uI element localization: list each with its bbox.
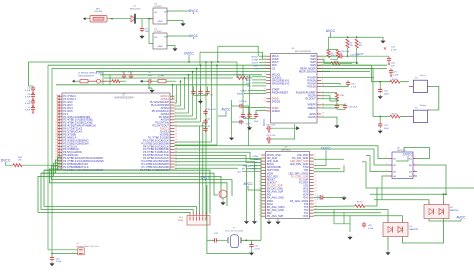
capacitor C24 [319,195,325,199]
ferrite bead L1 [80,80,88,83]
svg-text:21: 21 [55,154,57,156]
pin PU.0/AVSS1/DP [150,100,176,104]
wire to SL3 d [199,126,201,214]
wire U8 d [382,176,388,200]
svg-text:1uF: 1uF [145,31,149,33]
svg-text:GPIO2/RELAY2: GPIO2/RELAY2 [272,82,290,85]
net AVCC right [326,29,336,34]
pin RLDIN [308,94,324,97]
pin P6.1/TDI/TCLK2 [55,127,83,131]
pin BOCA [260,163,275,166]
pin RLDOUT [306,97,324,100]
pin LED_DRV_SUP [290,160,315,163]
wire avdd caps2 [249,75,251,114]
svg-text:2: 2 [414,157,415,159]
pin AVSS2 [161,106,176,110]
svg-text:MSP430F5529IPN: MSP430F5529IPN [114,97,133,99]
svg-text:1: 1 [56,95,57,97]
svg-text:12: 12 [55,127,57,129]
svg-text:2.2uF: 2.2uF [56,261,62,263]
pin TX4 [304,203,317,206]
wire [207,87,209,90]
pin DVDD [264,97,279,100]
svg-text:20: 20 [259,212,261,214]
svg-text:4.7uF: 4.7uF [25,109,31,111]
pin AVCC1 [160,94,176,98]
pin P5.1/TA/MCLK [152,109,176,113]
wire long bottom right [366,162,474,188]
wire PGA2P [321,77,374,79]
junction trunk [211,61,213,63]
ground [385,251,390,255]
no-connect [57,154,59,156]
wire bus5 [50,169,228,206]
wire to U6 a [175,152,262,159]
capacitor C4 [31,99,35,105]
capacitor C7 [191,90,195,96]
net trunk 6 [104,77,233,79]
wire c37 [272,128,295,139]
ground [149,89,154,93]
pin RX1 [303,196,316,199]
wire above U5 a [218,46,258,56]
pin PGA1P [307,82,323,85]
wire [136,18,149,20]
wire [336,120,338,124]
svg-text:4: 4 [56,104,57,106]
wire xtal a [207,239,213,241]
svg-text:16: 16 [175,139,177,141]
pin RESP_MODP [300,67,323,70]
svg-text:0.1uF: 0.1uF [317,198,323,200]
svg-text:6PIN: 6PIN [178,220,183,222]
no-connect [384,47,386,49]
wire [88,80,97,82]
pin P5.4/I2SCLK [55,153,78,157]
wire BSL [373,115,390,117]
pin RESET [260,178,276,181]
wire jc3 [349,216,351,232]
pin IN1P [310,61,323,64]
wire cap column [231,100,233,136]
pin P1.7/TB0.3/UCB0 [148,135,177,139]
junction trunk [217,61,219,63]
svg-text:18: 18 [259,206,261,208]
wire u6l h [242,171,261,173]
svg-text:BAV99W: BAV99W [410,228,418,231]
pin P3.1/SB2/UCB0SOMI [55,141,89,145]
wire feeder1 [372,65,374,81]
pin ATE_PDN [297,154,316,157]
junction trunk [188,61,190,63]
svg-text:C30 0.1uF: C30 0.1uF [207,109,217,111]
pin P5.1/TB0.3/UCA0CLK [143,138,177,142]
wire cap col2 [244,106,249,146]
wire IN2P [321,55,327,57]
capacitor C37 [266,137,272,141]
wire d2 gnd [387,237,389,251]
capacitor C25 [362,222,366,228]
net DVCC xtal [201,175,211,180]
svg-text:8: 8 [322,79,323,81]
wire P4 h [175,167,239,169]
wire [259,58,266,60]
svg-text:ADS1292RIPBS: ADS1292RIPBS [295,50,311,53]
pin U8.R1 [413,158,417,160]
pin PJ.1/TB0MB/BKTCLK [55,165,89,169]
capacitor C27 [247,113,251,119]
svg-text:6: 6 [260,169,261,171]
svg-text:BICLK: BICLK [252,56,259,58]
pin VSS [303,184,316,187]
pin P1.7/TB0.4/UCB1SOMI2 [140,168,177,172]
svg-text:C18 10uF: C18 10uF [348,107,358,109]
pin MCLK2 [265,73,281,76]
wire r3 down [356,48,358,63]
IC U8 SN74LVC1G3157 [392,152,413,179]
pin DVDD2 [264,100,281,103]
pin IN2P [310,55,323,58]
wire [32,85,34,87]
junction [347,36,349,38]
pin P6.2/TMS/CLK4 [55,130,82,134]
svg-text:C36 0.1uF: C36 0.1uF [266,124,276,126]
svg-text:4.7uF: 4.7uF [245,124,251,126]
svg-text:AVDD2: AVDD2 [272,110,281,113]
wire [251,248,253,251]
wire to SL3 b [41,210,193,214]
wire in2p b [327,55,340,57]
ADC U5 ADS1292R [271,54,318,124]
regulator U3 LP5907 [153,8,167,24]
no-connect [57,142,59,144]
pin PWDN/RESET [264,91,289,94]
svg-text:11: 11 [315,184,317,186]
capacitor C2 [31,86,35,92]
pin AVSS [309,113,324,116]
capacitor C35 [129,73,133,79]
wire [167,35,189,37]
capacitor C34 [122,73,126,79]
arrow VIN [72,80,75,83]
wire escape v1 [172,85,174,99]
net AVCC mid [221,108,231,113]
pin U8.R3 [413,171,417,173]
junction trunk [180,80,182,82]
wire escape v6 [192,72,194,116]
wire u6l g [246,168,261,170]
wire to SL3 c [38,213,190,214]
wire u6 b2 [314,210,388,220]
svg-text:7: 7 [56,113,57,115]
pin SCK [265,64,278,67]
svg-text:4: 4 [175,104,176,106]
svg-text:6: 6 [56,110,57,112]
no-connect [57,125,59,127]
wire avcc rail [329,37,384,39]
pin RX_ANA_SUP [259,190,284,193]
junction [148,18,150,20]
ground [380,39,385,43]
wire [232,105,239,107]
net AVCC bottomright [456,216,466,221]
wire u6r2 [314,158,344,160]
resistor R7 [390,115,400,118]
wire dvcc afe [314,152,326,166]
wire drop 200 [199,52,201,65]
wire xtal b [242,239,262,241]
wire pin link 11 [175,144,218,146]
svg-text:6: 6 [265,73,266,75]
resistor R2 [346,39,349,48]
svg-text:7: 7 [386,175,387,177]
capacitor C22 [378,88,382,94]
pin P4.7/TB0.1/UCA1RXD/UCA1SOMI [55,159,104,163]
svg-text:GND: GND [158,46,163,48]
svg-text:12: 12 [175,127,177,129]
svg-text:OUT: OUT [164,11,169,13]
svg-text:OUT: OUT [164,36,169,38]
svg-text:Reset: Reset [420,74,426,77]
svg-text:4.7uF: 4.7uF [351,86,357,88]
svg-text:13: 13 [315,190,317,192]
capacitor C23 [378,122,382,128]
wire bus1 [44,157,62,170]
ground [378,129,383,133]
net DVCC afe [321,147,331,152]
crystal Y2 [228,235,241,248]
vertical from MCU bottom 2 [40,173,42,210]
svg-text:START: START [241,89,248,92]
off-page arrow right [296,126,299,130]
capacitor C15 [346,81,350,87]
pin SUPY/STE [260,169,280,172]
svg-text:ADC_RDY: ADC_RDY [248,164,258,167]
svg-text:9: 9 [260,178,261,180]
pin P5.4/MCLK [55,135,77,139]
wire [337,108,345,110]
ground [252,220,257,224]
wire VREFP [321,99,337,104]
wire RLDIN [321,96,337,101]
svg-text:1: 1 [315,154,316,156]
wire PGA1P [321,84,340,85]
junction [379,116,381,118]
svg-text:24: 24 [175,163,177,165]
svg-text:LP5907: LP5907 [154,31,162,33]
pin P4.7/TB0.7/UCB1CLK [143,150,177,154]
no-connect [57,122,59,124]
wire [314,197,319,199]
no-connect [57,133,59,135]
wire gpio3 [252,82,266,84]
transistor Q1 [219,190,227,198]
ground [247,126,252,130]
resistor R6 [390,80,400,83]
wire to U8 c [370,155,388,171]
pin P1.5/TB0.4/UCA0TXD/UCA0SIMO [55,168,103,172]
svg-text:10: 10 [175,121,177,123]
svg-text:4: 4 [315,163,316,165]
svg-text:C13 0.1uF: C13 0.1uF [340,51,350,53]
pin PJ.1 [56,112,69,116]
no-connect [57,148,59,150]
wire escape v4 [184,78,186,109]
wire pin link 8 [175,121,201,123]
svg-text:DVCC: DVCC [184,52,194,56]
pin U8.L3 [388,171,392,173]
wire pin link 9 [175,125,207,127]
capacitor C26 [241,113,245,119]
ground [49,262,54,266]
svg-text:3: 3 [260,160,261,162]
wire escape v2 [176,85,178,103]
wire r5 out [330,58,338,60]
pin START [264,88,281,91]
ground [341,196,346,200]
resistor R9b [355,205,365,208]
wire [101,80,113,82]
wire bias h [329,49,338,51]
no-connect [57,95,59,97]
no-connect [57,107,59,109]
pin AVDD [264,106,279,109]
svg-text:L2 FB: L2 FB [158,76,164,78]
wire RLDREF [321,92,337,94]
wire drop 217 [217,46,219,62]
wire escape v9 [205,62,207,126]
svg-text:19: 19 [55,148,57,150]
pin TX_SUP [299,178,316,181]
wire jc1 [334,210,350,224]
svg-text:16: 16 [259,200,261,202]
wire [379,82,381,88]
svg-text:13: 13 [264,100,266,102]
wire to SL3 e [202,122,204,214]
pin MOSI [260,172,274,175]
net trunk 7 [56,84,250,86]
ground [347,236,352,240]
pin PD1 [259,193,273,196]
svg-text:15: 15 [175,136,177,138]
vertical from MCU bottom 1 [43,170,45,207]
pin P1.7/TA0.2 [56,94,77,98]
pin DVSS1 [160,130,177,134]
svg-text:4.7uF: 4.7uF [25,96,31,98]
no-connect [57,130,59,132]
wire [166,80,176,82]
wire RESP_MODN [321,70,370,72]
wire [295,127,297,129]
no-connect C2 [32,92,34,94]
ground [180,22,185,26]
wire c24 gnd [325,196,344,198]
pin CLKSEL [265,76,282,79]
no-connect [57,113,59,115]
supply arrow VBUS [83,17,86,20]
ground [266,220,271,224]
svg-text:12: 12 [315,187,317,189]
svg-text:AVCC: AVCC [456,216,466,220]
svg-text:ECS-.327-12.5-34B: ECS-.327-12.5-34B [225,230,243,232]
junction trunk [184,77,186,79]
capacitor C32 [203,127,207,133]
no-connect C3 [32,98,34,100]
pin P6.3/TD0B [55,132,76,136]
wire bus4 [52,166,233,196]
svg-text:8: 8 [315,175,316,177]
capacitor C10 [50,256,54,262]
wire DGND [321,117,337,120]
pin P1.4/TA1.2/UCB0STE5 [56,115,91,119]
junction trunk [192,71,194,73]
pin SL3.4 [199,213,201,216]
capacitor C17 [343,104,347,110]
pushbutton S5 [413,110,427,122]
pin PJ.0/TB0MA/BKTGIO [55,162,88,166]
wire [188,57,190,62]
junction trunk [188,74,190,76]
pin SCLK [259,203,274,206]
wire u6 b3 [314,212,381,214]
svg-text:DVCC: DVCC [321,147,331,151]
wire pin link 2 [175,102,177,104]
capacitor C5 [140,27,144,33]
wire [218,113,226,116]
pin LED_DRV_GND2 [288,172,315,175]
svg-text:CONF: CONF [252,59,259,61]
svg-text:SCK: SCK [254,66,259,68]
svg-text:5: 5 [56,107,57,109]
svg-text:1uF: 1uF [148,75,152,77]
wire [29,85,34,87]
pin P1.0/C3 [56,103,73,107]
wire bottom right 3 [374,200,429,202]
junction [356,36,358,38]
pin P1.4/TB0.2/UCB0CLK/B2 [55,121,93,125]
pin RX_DIG_GND [292,157,315,160]
svg-text:1: 1 [175,95,176,97]
svg-text:25: 25 [175,166,177,168]
svg-text:RESP_SKONN: RESP_SKONN [299,70,316,73]
capacitor C14x [249,243,253,249]
pin U8.L4 [388,175,392,177]
svg-text:18: 18 [55,145,57,147]
pin RX_ANA_SUP2 [259,206,286,209]
capacitor C6 [147,79,153,83]
wire S4 loop [431,86,439,110]
pin U8.L1 [388,158,392,160]
svg-text:5: 5 [315,166,316,168]
wire [328,56,330,57]
svg-text:11: 11 [264,91,266,93]
pin P4.0/TB0.5/UCA1TXD [143,153,177,157]
pin GPIO/SCNB [260,166,281,169]
pin PGA1N [307,85,324,88]
wire tx sup2 [365,188,377,206]
svg-text:13: 13 [55,130,57,132]
svg-text:GND: GND [158,21,163,23]
pin LED_DRV_GND [290,163,316,166]
svg-text:PGA1N: PGA1N [307,86,316,89]
junction trunk [172,84,174,86]
pin TX_REF [299,181,317,184]
pin AVSS4 [161,118,176,122]
svg-text:CH340B: CH340B [94,11,103,13]
pin VREFN [307,106,324,109]
capacitor C1 [31,106,35,112]
wire [153,80,158,82]
